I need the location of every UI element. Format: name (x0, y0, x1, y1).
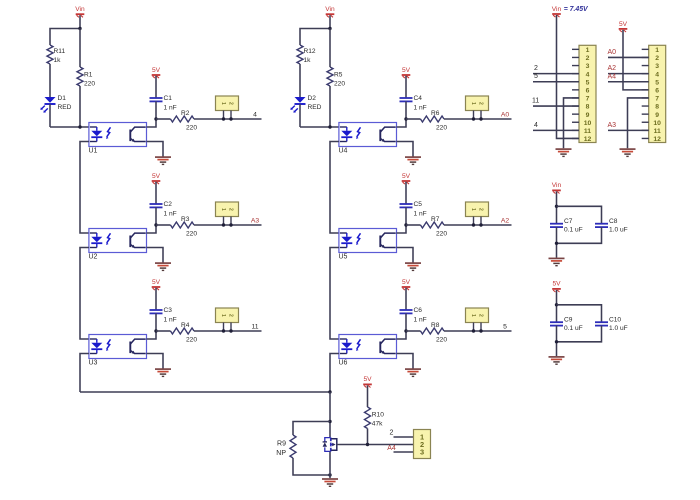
jumper header (row 3) (216, 308, 239, 333)
svg-text:220: 220 (436, 125, 447, 132)
svg-text:220: 220 (84, 81, 95, 88)
svg-text:A0: A0 (501, 112, 510, 119)
ground (549, 357, 565, 364)
wire (155, 207, 157, 225)
svg-text:3: 3 (420, 448, 424, 457)
power Vin (column 1) (75, 6, 85, 17)
connector JP3 (3-pin) (414, 430, 431, 459)
svg-text:5V: 5V (152, 67, 161, 74)
resistor R7 (421, 216, 448, 238)
svg-text:1: 1 (470, 314, 476, 317)
svg-text:1: 1 (220, 314, 226, 317)
ground (405, 369, 421, 376)
wire (79, 15, 81, 28)
svg-text:C3: C3 (164, 307, 173, 314)
wire (156, 118, 171, 120)
svg-text:0.1 uF: 0.1 uF (564, 325, 583, 332)
wire (556, 290, 558, 322)
wire (155, 76, 157, 98)
wire (156, 224, 171, 226)
svg-text:U6: U6 (339, 360, 348, 367)
wire (557, 206, 602, 223)
wire (405, 101, 407, 119)
junction (328, 473, 331, 476)
svg-text:1.0 uF: 1.0 uF (609, 325, 628, 332)
svg-text:R8: R8 (431, 322, 440, 329)
opto-sensor U2 (89, 229, 147, 253)
ground (556, 149, 572, 156)
wire (80, 354, 89, 393)
svg-text:A0: A0 (608, 49, 617, 56)
svg-text:47k: 47k (372, 421, 383, 428)
power 5V (row 1) (152, 67, 161, 78)
ground (620, 149, 636, 156)
junction (404, 117, 407, 120)
wire gate (340, 444, 414, 446)
ground (405, 263, 421, 270)
wire (49, 104, 51, 127)
resistor R12 (297, 45, 316, 64)
capacitor C4 (400, 95, 427, 112)
ground (549, 258, 565, 265)
svg-text:C7: C7 (564, 218, 573, 225)
junction (404, 329, 407, 332)
wire (533, 105, 579, 107)
power Vin = 7.45V (552, 6, 589, 17)
svg-text:D2: D2 (308, 95, 317, 102)
svg-text:2: 2 (390, 430, 394, 437)
svg-text:1k: 1k (54, 57, 62, 64)
ground (155, 369, 171, 376)
svg-text:5V: 5V (402, 279, 411, 286)
ground (155, 157, 171, 164)
wire (444, 118, 512, 120)
svg-text:2: 2 (534, 65, 538, 72)
wire (155, 288, 157, 310)
wire (49, 64, 51, 97)
wire (299, 104, 301, 127)
wire (444, 330, 512, 332)
wire (147, 119, 157, 127)
power 5V (bypass group) (552, 281, 561, 292)
svg-text:2: 2 (655, 55, 659, 62)
wire (329, 29, 331, 68)
wire (194, 330, 262, 332)
svg-text:R5: R5 (334, 72, 343, 79)
svg-text:R2: R2 (181, 110, 190, 117)
wire (533, 81, 579, 83)
wire (147, 354, 164, 369)
opto-sensor U1 (89, 123, 147, 147)
resistor R11 (47, 45, 65, 64)
svg-text:= 7.45V: = 7.45V (564, 6, 589, 13)
capacitor C2 (150, 201, 177, 218)
svg-text:1 nF: 1 nF (164, 317, 177, 324)
wire (397, 331, 407, 339)
resistor R9 (276, 422, 330, 476)
svg-text:Vin: Vin (552, 6, 562, 13)
ground (405, 157, 421, 164)
svg-text:1: 1 (470, 102, 476, 105)
svg-text:1 nF: 1 nF (414, 211, 427, 218)
svg-text:2: 2 (228, 208, 234, 211)
svg-text:U2: U2 (89, 254, 98, 261)
svg-text:6: 6 (655, 87, 659, 94)
junction (154, 117, 157, 120)
svg-text:11: 11 (654, 128, 661, 135)
power 5V (row 1) (402, 67, 411, 78)
wire (628, 98, 649, 148)
junction (555, 205, 558, 208)
junction (78, 125, 81, 128)
svg-text:U1: U1 (89, 148, 98, 155)
svg-text:Vin: Vin (552, 182, 562, 189)
svg-text:A4: A4 (608, 73, 617, 80)
svg-text:1 nF: 1 nF (414, 105, 427, 112)
svg-text:5V: 5V (402, 67, 411, 74)
wire (330, 248, 339, 340)
svg-text:8: 8 (586, 104, 590, 111)
capacitor C6 (400, 307, 427, 324)
opto-sensor U3 (89, 335, 147, 359)
svg-text:1 nF: 1 nF (164, 105, 177, 112)
wire (557, 305, 602, 322)
resistor R2 (171, 110, 198, 132)
capacitor C1 (150, 95, 177, 112)
capacitor C7 (550, 218, 583, 234)
svg-text:7: 7 (655, 96, 659, 103)
jumper header (row 3) (466, 308, 489, 333)
wire LED bus (80, 391, 330, 393)
svg-text:R9: R9 (277, 441, 286, 448)
svg-text:5: 5 (655, 79, 659, 86)
svg-text:RED: RED (58, 104, 72, 111)
wire (557, 326, 602, 342)
wire (80, 142, 89, 234)
svg-text:C2: C2 (164, 201, 173, 208)
svg-text:R12: R12 (304, 48, 316, 55)
transistor Q1 (MOSFET) (323, 438, 340, 452)
svg-text:12: 12 (653, 136, 661, 143)
svg-text:NP: NP (276, 450, 286, 457)
junction (404, 223, 407, 226)
svg-text:A3: A3 (608, 122, 617, 129)
wire (397, 119, 407, 127)
svg-text:5V: 5V (619, 21, 628, 28)
power Vin (column 2) (325, 6, 335, 17)
power 5V (row 2) (402, 173, 411, 184)
jumper header (row 2) (466, 202, 489, 227)
svg-text:1: 1 (220, 102, 226, 105)
capacitor C5 (400, 201, 427, 218)
svg-text:2: 2 (478, 314, 484, 317)
LED D2 (290, 95, 321, 113)
junction (328, 125, 331, 128)
svg-text:5: 5 (586, 79, 590, 86)
svg-text:C4: C4 (414, 95, 423, 102)
svg-text:1: 1 (655, 47, 659, 54)
svg-text:9: 9 (586, 112, 590, 119)
junction (328, 420, 331, 423)
capacitor C3 (150, 307, 177, 324)
svg-text:5V: 5V (552, 281, 561, 288)
wire (397, 225, 407, 233)
svg-text:10: 10 (584, 120, 592, 127)
wire (147, 142, 164, 157)
wire (367, 429, 369, 445)
resistor R4 (171, 322, 198, 344)
junction (555, 340, 558, 343)
svg-text:2: 2 (228, 314, 234, 317)
svg-text:10: 10 (653, 120, 661, 127)
jumper header (row 1) (216, 96, 239, 121)
wire (194, 224, 262, 226)
power 5V (gate pull-up) (363, 376, 372, 387)
junction (555, 303, 558, 306)
wire (155, 182, 157, 204)
jumper header (row 2) (216, 202, 239, 227)
svg-text:4: 4 (534, 122, 538, 129)
wire (300, 29, 330, 46)
svg-text:220: 220 (186, 337, 197, 344)
wire (405, 288, 407, 310)
wire (533, 73, 579, 75)
svg-text:11: 11 (584, 128, 591, 135)
connector JP2 (12-pin) (642, 45, 666, 143)
svg-text:220: 220 (436, 231, 447, 238)
svg-text:C9: C9 (564, 317, 573, 324)
svg-text:5V: 5V (402, 173, 411, 180)
svg-text:R7: R7 (431, 216, 440, 223)
svg-text:11: 11 (251, 324, 258, 331)
wire (330, 354, 339, 393)
wire (397, 354, 414, 369)
svg-text:U5: U5 (339, 254, 348, 261)
wire (50, 29, 80, 46)
svg-text:5: 5 (503, 324, 507, 331)
jumper header (row 1) (466, 96, 489, 121)
svg-text:9: 9 (655, 112, 659, 119)
svg-text:2: 2 (228, 102, 234, 105)
wire (147, 248, 164, 263)
wire (147, 225, 157, 233)
svg-text:1: 1 (586, 47, 590, 54)
wire (608, 73, 649, 75)
svg-text:A3: A3 (251, 218, 260, 225)
ground (322, 479, 338, 486)
ground (155, 263, 171, 270)
wire (394, 436, 414, 438)
svg-text:1 nF: 1 nF (164, 211, 177, 218)
svg-text:5: 5 (534, 73, 538, 80)
wire (329, 452, 331, 479)
power 5V (row 3) (152, 279, 161, 290)
wire (405, 182, 407, 204)
wire (623, 30, 649, 90)
wire (330, 142, 339, 234)
svg-text:R1: R1 (84, 72, 93, 79)
resistor R6 (421, 110, 448, 132)
wire (405, 313, 407, 331)
wire (405, 76, 407, 98)
svg-text:4: 4 (655, 71, 659, 78)
svg-text:5V: 5V (363, 376, 372, 383)
resistor R10 (365, 407, 385, 429)
svg-text:0.1 uF: 0.1 uF (564, 227, 583, 234)
wire (608, 81, 649, 83)
svg-text:R6: R6 (431, 110, 440, 117)
svg-text:220: 220 (186, 231, 197, 238)
junction (154, 329, 157, 332)
junction (328, 390, 331, 393)
wire (329, 86, 331, 127)
svg-text:1 nF: 1 nF (414, 317, 427, 324)
wire (300, 126, 339, 128)
svg-text:R11: R11 (54, 48, 66, 55)
wire (80, 248, 89, 340)
svg-text:2: 2 (586, 55, 590, 62)
svg-text:1: 1 (220, 208, 226, 211)
wire (608, 129, 649, 131)
svg-text:C6: C6 (414, 307, 423, 314)
svg-text:1.0 uF: 1.0 uF (609, 227, 628, 234)
junction (328, 27, 331, 30)
svg-text:R4: R4 (181, 322, 190, 329)
LED D1 (40, 95, 71, 113)
wire (397, 142, 414, 157)
svg-text:Vin: Vin (75, 6, 85, 13)
wire (556, 227, 558, 258)
wire (406, 118, 421, 120)
resistor R1 (77, 67, 95, 88)
wire (397, 248, 414, 263)
svg-text:3: 3 (655, 63, 659, 70)
svg-text:5V: 5V (152, 279, 161, 286)
wire (329, 392, 331, 437)
wire (50, 126, 89, 128)
wire (155, 101, 157, 119)
connector JP1 (12-pin) (572, 45, 596, 143)
wire (79, 86, 81, 127)
junction (366, 443, 369, 446)
svg-text:RED: RED (308, 104, 322, 111)
wire (405, 207, 407, 225)
wire (299, 64, 301, 97)
svg-text:6: 6 (586, 87, 590, 94)
resistor R8 (421, 322, 448, 344)
junction (555, 242, 558, 245)
opto-sensor U5 (339, 229, 397, 253)
resistor R3 (171, 216, 198, 238)
wire (533, 129, 579, 131)
wire (556, 326, 558, 357)
svg-text:3: 3 (586, 63, 590, 70)
svg-text:C1: C1 (164, 95, 173, 102)
junction (154, 223, 157, 226)
wire (406, 224, 421, 226)
power 5V (row 2) (152, 173, 161, 184)
svg-text:Vin: Vin (325, 6, 335, 13)
svg-text:2: 2 (478, 208, 484, 211)
svg-text:8: 8 (655, 104, 659, 111)
wire (557, 227, 602, 243)
svg-text:7: 7 (586, 96, 590, 103)
power 5V (row 3) (402, 279, 411, 290)
wire (156, 330, 171, 332)
resistor R5 (327, 67, 345, 88)
svg-text:D1: D1 (58, 95, 67, 102)
wire (406, 330, 421, 332)
capacitor C10 (595, 317, 628, 333)
svg-text:U3: U3 (89, 360, 98, 367)
opto-sensor U6 (339, 335, 397, 359)
wire (367, 385, 369, 407)
capacitor C9 (550, 317, 583, 333)
wire (329, 15, 331, 28)
wire (444, 224, 512, 226)
opto-sensor U4 (339, 123, 397, 147)
power 5V (header 2) (619, 21, 628, 32)
svg-text:R10: R10 (372, 412, 384, 419)
junction (78, 27, 81, 30)
wire (556, 191, 558, 223)
svg-text:220: 220 (186, 125, 197, 132)
wire (194, 118, 262, 120)
svg-text:R3: R3 (181, 216, 190, 223)
power Vin (bypass group) (552, 182, 562, 193)
svg-text:220: 220 (436, 337, 447, 344)
svg-text:4: 4 (253, 112, 257, 119)
wire (564, 98, 580, 148)
wire (608, 56, 649, 58)
svg-text:4: 4 (586, 71, 590, 78)
svg-text:C8: C8 (609, 218, 618, 225)
wire (394, 451, 414, 453)
svg-text:A2: A2 (608, 65, 617, 72)
svg-text:1k: 1k (304, 57, 312, 64)
wire (147, 331, 157, 339)
svg-text:12: 12 (584, 136, 592, 143)
wire (79, 29, 81, 68)
svg-text:A2: A2 (501, 218, 510, 225)
svg-text:11: 11 (532, 98, 539, 105)
svg-text:A4: A4 (387, 445, 396, 452)
svg-text:2: 2 (478, 102, 484, 105)
svg-text:C10: C10 (609, 317, 621, 324)
svg-text:1: 1 (470, 208, 476, 211)
svg-text:5V: 5V (152, 173, 161, 180)
svg-text:C5: C5 (414, 201, 423, 208)
wire (557, 15, 580, 138)
svg-text:U4: U4 (339, 148, 348, 155)
wire (155, 313, 157, 331)
svg-text:220: 220 (334, 81, 345, 88)
capacitor C8 (595, 218, 628, 234)
